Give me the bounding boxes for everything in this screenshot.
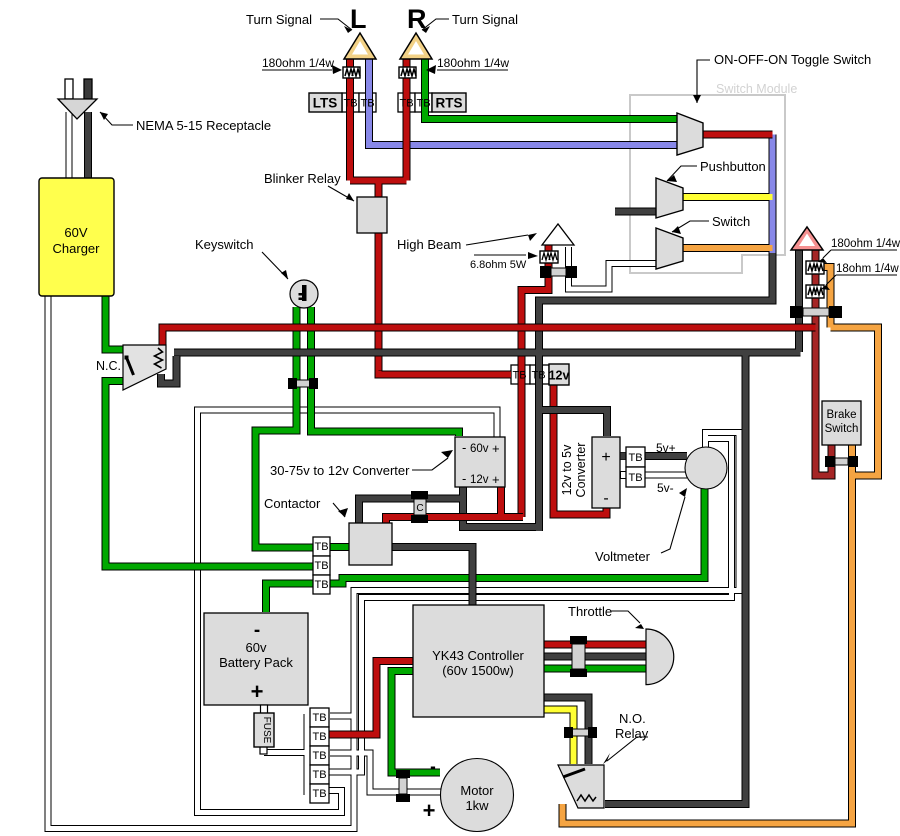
YK43 controller [413,605,544,717]
svg-text:-: - [462,440,466,455]
TB labels top row [343,98,430,110]
brake lamp [791,227,823,250]
leader 180ohm brake [823,250,897,258]
svg-text:5v+: 5v+ [656,441,676,455]
svg-text:12v: 12v [470,474,489,486]
svg-text:Battery Pack: Battery Pack [219,655,293,670]
12v to 5v converter [560,437,620,508]
svg-text:+: + [423,798,436,823]
wire yellow controller to relay [544,710,574,765]
leader toggle switch [697,60,710,103]
NO relay [558,765,604,808]
svg-text:ON-OFF-ON Toggle Switch: ON-OFF-ON Toggle Switch [714,52,871,67]
wire red throttle [544,641,646,649]
wire inner hook: voltmeter branch west loop to TBd [327,439,732,773]
wire green RTS to toggle switch [425,59,677,119]
leader NEMA [100,112,133,125]
svg-text:TB: TB [531,370,545,382]
60v to 12v converter [455,437,505,487]
wire gray pushbutton stub [615,208,656,216]
svg-text:Converter: Converter [574,443,588,498]
motor [423,757,514,832]
svg-text:R: R [407,4,427,34]
wire yellow pushbutton output [683,193,773,201]
svg-text:Contactor: Contactor [264,496,321,511]
svg-text:18ohm 1/4w: 18ohm 1/4w [836,263,899,275]
svg-text:TB: TB [416,98,430,110]
fuse [254,705,274,754]
svg-text:+: + [492,441,500,456]
wire orange brake lamp resistor link [823,267,831,328]
svg-text:-: - [603,490,608,507]
svg-text:180ohm 1/4w: 180ohm 1/4w [437,56,509,70]
svg-text:TB: TB [314,541,328,553]
connector high beam [540,266,577,278]
leader pushbutton [667,166,697,181]
charger [39,178,114,296]
svg-text:Brake: Brake [826,409,856,421]
wire green keyswitch left to TB1 [256,307,314,548]
svg-text:TB: TB [312,712,326,724]
svg-text:TB: TB [343,98,357,110]
voltmeter [685,447,727,489]
svg-text:1kw: 1kw [465,798,489,813]
connector throttle [570,636,587,677]
svg-text:TB: TB [314,579,328,591]
svg-text:RTS: RTS [436,96,463,111]
wire high beam return to switch [569,247,657,289]
terminal blocks LTS row [342,93,432,112]
svg-text:Turn Signal: Turn Signal [452,12,518,27]
arrowheads [100,26,830,764]
leader blinker relay [328,186,354,201]
svg-text:+: + [601,449,610,466]
svg-text:L: L [350,4,367,34]
wire gray 12v minus link [463,487,539,527]
svg-text:Switch: Switch [712,214,750,229]
turn signal R lamp [400,33,432,59]
svg-text:-: - [462,471,466,486]
svg-text:TB: TB [399,98,413,110]
svg-text:Blinker Relay: Blinker Relay [264,171,341,186]
wire orange brake switch down run [563,445,853,824]
svg-text:TB: TB [314,560,328,572]
wire red brake lamp column [816,250,832,476]
svg-text:TB: TB [360,98,374,110]
svg-text:YK43 Controller: YK43 Controller [432,648,524,663]
svg-text:TB: TB [628,472,642,484]
svg-text:6.8ohm 5W: 6.8ohm 5W [470,259,527,271]
RTS box [432,93,466,112]
bottom TB column [310,708,329,803]
svg-text:60v: 60v [470,443,489,455]
blinker relay [357,197,387,233]
throttle [646,629,674,685]
svg-text:5v-: 5v- [657,481,674,495]
svg-text:60V: 60V [64,225,87,240]
svg-text:Pushbutton: Pushbutton [700,159,766,174]
leader contactor [333,503,345,517]
wire NEMA neutral prong lead [66,112,73,178]
5v TB blocks [621,447,646,487]
svg-text:C: C [416,503,423,514]
leader throttle [611,611,640,623]
wire gray throttle [544,653,646,661]
svg-text:N.C.: N.C. [96,359,121,373]
wire red blinker relay output column [375,233,383,375]
resistor 6.8ohm [540,251,558,263]
svg-text:12v: 12v [549,369,570,383]
turn signal L lamp [344,33,376,59]
wire red toggle output [703,131,773,139]
wire green charger to NC switch [106,296,124,350]
resistor 180ohm left [343,67,360,78]
svg-text:180ohm 1/4w: 180ohm 1/4w [262,56,334,70]
connector NO relay [564,727,597,738]
wire blue switch-module riser [769,135,777,255]
NC switch [123,345,166,390]
wire TBe loop: bottom inner run, up left side, converter feed [198,410,498,813]
wire gray controller to relay [544,698,589,765]
wire gray bus drop to NO relay [605,353,746,805]
switch [656,228,683,269]
connector brake top [790,306,842,318]
leader high beam [466,235,528,245]
leader turn signal R [422,19,449,30]
NEMA 5-15 receptacle [58,79,97,119]
svg-text:Throttle: Throttle [568,604,612,619]
svg-text:-: - [430,757,436,776]
wire NEMA hot prong lead [84,112,92,178]
svg-text:Voltmeter: Voltmeter [595,549,651,564]
wire gray switch-module column to 12v TB [539,253,773,531]
wire green throttle [544,665,646,673]
wire red contactor to 12v plus [386,487,523,523]
12v box [549,364,570,385]
wire gray 5v+ to voltmeter [620,452,687,460]
wire green battery minus to TB3 [266,584,313,613]
underline 180ohm left [262,69,332,71]
svg-text:TB: TB [312,788,326,800]
wire red left turn signal [346,59,354,181]
leader switch [672,221,709,232]
svg-text:FUSE: FUSE [261,717,272,744]
wire red main power bus [163,328,816,346]
pushbutton [656,178,683,218]
wire gray brake lamp ground leg [795,250,803,352]
resistor 180ohm brake [806,261,824,274]
switch module outline [630,82,797,273]
wire red right turn signal [403,59,411,181]
svg-text:TB: TB [312,731,326,743]
resistor 180ohm right [399,67,416,78]
contactor TB column [313,537,330,594]
leader 6.8ohm [474,254,526,256]
toggle switch [677,113,703,155]
svg-text:Switch Module: Switch Module [716,82,797,96]
wire blue turn-signal common [369,59,677,145]
wire red turn signal junction to blinker relay [350,181,407,198]
svg-text:12v to 5v: 12v to 5v [560,444,574,495]
svg-text:High Beam: High Beam [397,237,461,252]
wire gray contactor to controller [392,547,473,605]
battery pack [204,613,308,705]
svg-text:N.O.: N.O. [619,711,646,726]
svg-text:Motor: Motor [460,783,494,798]
svg-text:Turn Signal: Turn Signal [246,12,312,27]
svg-text:60v: 60v [246,640,267,655]
wire green controller to motor [392,671,441,773]
svg-text:Charger: Charger [53,241,101,256]
wire gray main ground bus [174,349,801,357]
svg-text:180ohm 1/4w: 180ohm 1/4w [831,238,900,250]
wire 5v- to voltmeter [620,472,687,479]
leader NO relay [607,737,648,761]
svg-text:+: + [251,679,264,704]
resistor 18ohm brake [806,285,824,298]
keyswitch [290,280,318,308]
svg-text:TB: TB [312,750,326,762]
connector motor [396,770,410,802]
12v TB label row [512,370,545,382]
svg-text:TB: TB [628,452,642,464]
wire TBa to riser [330,713,354,720]
wire red TBb to controller [327,661,413,735]
brake switch [822,401,861,445]
wire fuse to TB west bus [264,749,307,756]
wire red 12v to 5v converter feed [554,384,607,515]
connector keyswitch [288,378,318,389]
svg-text:Switch: Switch [825,423,859,435]
leader 18ohm brake [826,275,897,285]
wire gray contactor coil [359,499,463,524]
wire gray 5v converter feed [539,410,607,436]
wire green keyswitch right to 60v converter [311,307,459,436]
svg-text:+: + [492,472,500,487]
wire red relay to 12v TB [379,371,512,375]
svg-text:TB: TB [512,370,526,382]
leader keyswitch [262,252,288,279]
svg-text:(60v 1500w): (60v 1500w) [442,663,514,678]
leader voltmeter [661,497,685,553]
leader turn signal L [320,19,352,30]
wire green main bus to voltmeter [330,489,705,584]
LTS box [309,93,342,112]
svg-text:Keyswitch: Keyswitch [195,237,254,252]
wire orange switch output [683,244,773,252]
terminal blocks 12v row [511,365,549,384]
svg-text:-: - [254,620,260,641]
svg-text:NEMA 5-15 Receptacle: NEMA 5-15 Receptacle [136,118,271,133]
wire green TB1 to contactor [330,543,349,551]
wire TB west bus [304,714,311,795]
wire green NC to TB2 [106,381,314,567]
wire TBc to motor plus [330,753,441,792]
contactor [349,523,392,565]
wire red high-beam feed column [522,245,549,517]
svg-text:Relay: Relay [615,726,649,741]
high beam lamp [542,224,574,245]
wire orange brake top run [831,328,879,476]
svg-text:LTS: LTS [313,96,338,111]
svg-text:30-75v to 12v Converter: 30-75v to 12v Converter [270,463,410,478]
connector brake switch [825,456,858,467]
contactor C capacitor [411,491,428,523]
svg-text:TB: TB [312,769,326,781]
leader 30-75v converter [412,458,448,470]
underline 180ohm right [437,69,508,71]
wire charger loop: charger bottom, page bottom, up right of TB stack, east, voltmeter hook [48,296,739,829]
wire gray NC jog [161,356,177,384]
